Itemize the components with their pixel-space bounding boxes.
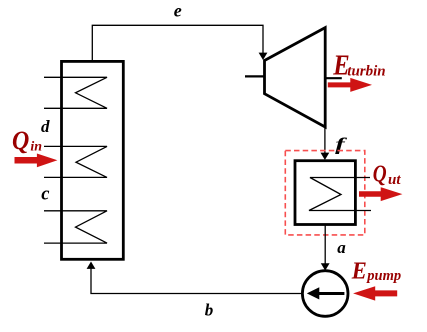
svg-text:d: d [41, 117, 50, 136]
E_turbin work output arrow [328, 78, 372, 92]
svg-text:Q: Q [12, 127, 29, 155]
condenser coil [309, 178, 371, 211]
node f label [335, 135, 347, 154]
svg-text:pump: pump [365, 268, 401, 284]
svg-text:e: e [174, 1, 182, 21]
turbine T [265, 28, 326, 127]
turbine left shaft stub [245, 75, 265, 77]
wire pump to boiler (node b pipe) [91, 269, 302, 294]
heater coil 3 (bottom) [44, 211, 107, 243]
E_pump label [351, 257, 367, 284]
condenser red dashed boundary [285, 151, 365, 235]
svg-text:ut: ut [388, 172, 401, 188]
wire boiler top to turbine (node e pipe) [92, 25, 263, 61]
boiler vessel [62, 61, 124, 259]
pump internal flow arrow [307, 287, 345, 299]
svg-text:b: b [205, 301, 214, 320]
turbine right shaft stub [325, 77, 342, 79]
arrowhead into condenser [321, 153, 330, 160]
heater coil 2 (middle) [44, 146, 107, 177]
arrowhead into boiler bottom [87, 262, 96, 269]
svg-text:in: in [30, 140, 42, 155]
svg-text:Q: Q [373, 160, 387, 187]
Q_ut heat rejection arrow [359, 187, 402, 201]
wire condenser to pump (node a pipe) [324, 225, 326, 264]
E_pump work input arrow [353, 286, 397, 300]
wire turbine to condenser (node f pipe) [324, 127, 326, 153]
svg-text:a: a [337, 238, 346, 257]
svg-text:E: E [351, 257, 367, 284]
Q_in label [12, 127, 29, 155]
svg-text:c: c [41, 185, 49, 205]
E_turbin label [332, 50, 349, 81]
svg-text:turbin: turbin [347, 63, 385, 79]
condenser vessel [295, 161, 355, 225]
Q_in heat input arrow [15, 154, 58, 168]
heater coil 1 (top) [44, 77, 107, 108]
Q_ut label [373, 160, 387, 187]
arrowhead into pump [321, 263, 330, 270]
arrowhead into turbine [259, 53, 268, 60]
pump P [302, 271, 348, 317]
